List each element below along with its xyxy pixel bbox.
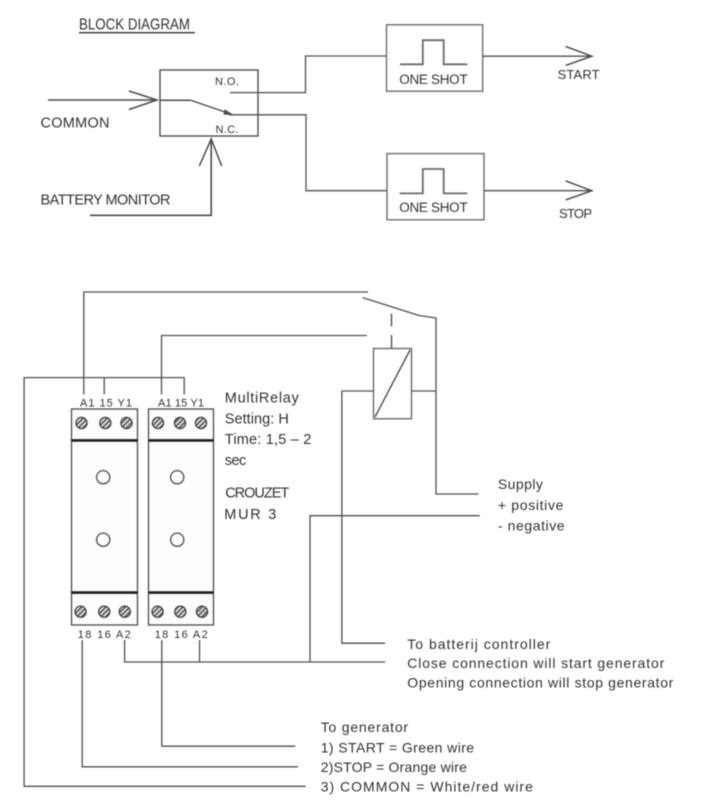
svg-text:STOP: STOP: [559, 206, 592, 221]
svg-text:- negative: - negative: [498, 517, 565, 533]
svg-text:COMMON: COMMON: [41, 116, 110, 132]
svg-text:A1 15 Y1: A1 15 Y1: [158, 397, 204, 409]
svg-text:+ positive: + positive: [498, 497, 564, 513]
svg-text:A1 15 Y1: A1 15 Y1: [80, 397, 132, 409]
svg-text:2)STOP = Orange wire: 2)STOP = Orange wire: [321, 759, 467, 775]
svg-text:ONE SHOT: ONE SHOT: [399, 72, 467, 87]
svg-text:1) START = Green wire: 1) START = Green wire: [321, 739, 475, 755]
svg-text:N.C.: N.C.: [216, 124, 239, 136]
svg-text:CROUZET: CROUZET: [225, 486, 289, 502]
svg-text:N.O.: N.O.: [215, 76, 239, 88]
svg-text:Supply: Supply: [498, 476, 543, 492]
svg-text:BATTERY MONITOR: BATTERY MONITOR: [41, 193, 171, 209]
svg-text:18 16 A2: 18 16 A2: [78, 629, 131, 641]
svg-text:To batterij controller: To batterij controller: [407, 636, 550, 652]
svg-text:Time: 1,5 – 2: Time: 1,5 – 2: [225, 432, 311, 448]
svg-text:Setting: H: Setting: H: [225, 411, 289, 427]
svg-text:sec: sec: [225, 453, 246, 469]
svg-text:To generator: To generator: [321, 719, 409, 735]
svg-text:MultiRelay: MultiRelay: [225, 391, 300, 407]
svg-text:3) COMMON = White/red wire: 3) COMMON = White/red wire: [321, 778, 533, 794]
svg-text:START: START: [558, 67, 600, 82]
svg-text:Close connection will start ge: Close connection will start generator: [407, 655, 664, 671]
svg-text:ONE SHOT: ONE SHOT: [399, 200, 467, 215]
svg-text:Opening connection will stop g: Opening connection will stop generator: [407, 674, 673, 690]
svg-text:18 16 A2: 18 16 A2: [155, 629, 208, 641]
svg-text:BLOCK DIAGRAM: BLOCK DIAGRAM: [79, 17, 190, 34]
svg-text:MUR 3: MUR 3: [224, 507, 276, 523]
